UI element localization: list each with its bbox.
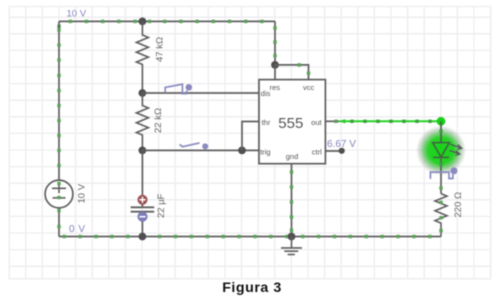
wire bottom rail xyxy=(59,235,441,238)
wire gnd pin down xyxy=(290,164,293,237)
wire thr link xyxy=(242,122,259,151)
svg-text:res: res xyxy=(270,83,281,92)
wire out stub xyxy=(325,120,339,123)
node supply split xyxy=(271,61,279,69)
switch S2 (nearly closed blade) xyxy=(180,143,200,147)
voltage source V1 10V xyxy=(45,180,87,208)
svg-text:Figura 3: Figura 3 xyxy=(222,280,282,296)
node out corner (green) xyxy=(437,117,446,126)
node thr-trig link xyxy=(238,147,246,155)
wire to vcc pin xyxy=(275,63,310,80)
svg-text:555: 555 xyxy=(278,115,303,132)
svg-text:thr: thr xyxy=(262,118,271,127)
wire LED to switch S3 xyxy=(430,157,457,193)
svg-text:10 V: 10 V xyxy=(67,8,87,19)
svg-text:47 kΩ: 47 kΩ xyxy=(155,37,166,62)
svg-text:22 µF: 22 µF xyxy=(156,193,167,218)
svg-text:10 V: 10 V xyxy=(77,183,88,203)
svg-text:trig: trig xyxy=(260,148,270,157)
node top rail / 47k junction xyxy=(139,18,147,26)
resistor 47 kOhm xyxy=(136,21,165,93)
node trig junction xyxy=(139,147,147,155)
svg-text:vcc: vcc xyxy=(303,83,315,92)
switch S1 (open blade) xyxy=(165,84,186,93)
wire trig with switch S2 xyxy=(142,143,259,151)
svg-text:gnd: gnd xyxy=(286,152,299,161)
node dis junction xyxy=(139,89,147,97)
wire left rail xyxy=(57,21,60,236)
wire top-right corner to node xyxy=(273,21,276,65)
svg-text:22 kΩ: 22 kΩ xyxy=(153,108,164,133)
svg-text:6.67 V: 6.67 V xyxy=(327,139,356,150)
wire dis with switch S1 xyxy=(142,84,259,94)
ground symbol xyxy=(281,237,302,255)
resistor 22 kOhm xyxy=(136,93,164,150)
wire top rail xyxy=(57,20,275,28)
resistor 220 Ohm xyxy=(435,192,464,237)
wire ctrl stub xyxy=(325,148,344,154)
svg-text:220 Ω: 220 Ω xyxy=(453,192,464,218)
node cap-bottom xyxy=(139,233,147,241)
svg-text:dis: dis xyxy=(261,89,271,98)
switch S3 bracket xyxy=(430,172,453,179)
LED D1 glow xyxy=(416,126,466,176)
wire to res pin xyxy=(274,65,276,80)
svg-text:ctrl: ctrl xyxy=(312,148,322,157)
capacitor 22 uF xyxy=(131,150,167,236)
wire out (green, high) xyxy=(339,119,441,124)
node gnd-bottom xyxy=(288,233,296,241)
svg-text:out: out xyxy=(311,118,322,127)
svg-text:0 V: 0 V xyxy=(69,224,86,235)
IC 555 U1 xyxy=(259,80,325,164)
LED D1 symbol xyxy=(433,121,462,157)
